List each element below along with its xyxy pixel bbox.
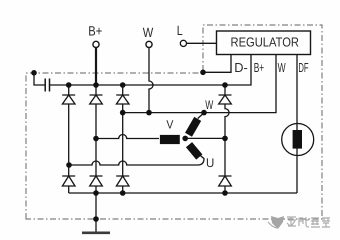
node bus C1 xyxy=(66,82,72,88)
node ground bus neutral xyxy=(222,190,228,196)
node bus C2 xyxy=(93,82,99,88)
node W line C3 xyxy=(120,110,126,116)
node neutral line xyxy=(222,136,228,142)
alternator case dashed boundary xyxy=(26,25,322,219)
wire neutral point to diode column xyxy=(185,137,225,139)
wire B+ pin to bus xyxy=(50,55,252,86)
wire capacitor to case xyxy=(34,73,45,85)
watermark logo xyxy=(268,216,284,229)
terminal L xyxy=(180,40,186,46)
svg-text:DF: DF xyxy=(298,60,308,75)
wire B+ terminal to bus xyxy=(95,48,97,85)
diode D7 neutral top xyxy=(219,85,232,104)
node star center xyxy=(182,136,188,142)
wire W terminal down with hop over B+ bus xyxy=(149,48,153,113)
wire L to D- xyxy=(187,42,217,44)
svg-text:U: U xyxy=(206,156,214,170)
svg-text:D-: D- xyxy=(234,60,248,75)
diode D5 bottom xyxy=(90,176,103,193)
node V line C2 xyxy=(93,136,99,142)
wire V line with hop xyxy=(96,135,159,139)
wire U line with hops and hook to U winding xyxy=(69,155,204,165)
wire W bar to node xyxy=(198,113,204,118)
stator winding U bar xyxy=(189,145,199,157)
diode D2 top xyxy=(90,85,103,176)
svg-text:W: W xyxy=(205,98,213,112)
wire DF pin through rotor xyxy=(296,55,298,194)
svg-text:B+: B+ xyxy=(88,23,102,38)
node bus C3 xyxy=(120,82,126,88)
node ground bus C3 xyxy=(120,190,126,196)
rotor winding rect xyxy=(293,130,302,149)
diode D6 bottom xyxy=(116,176,129,193)
node bus neutral xyxy=(222,82,228,88)
svg-text:L: L xyxy=(177,23,183,38)
diode D1 top xyxy=(62,85,75,176)
svg-text:B+: B+ xyxy=(254,60,265,75)
ground stem xyxy=(95,193,97,233)
node case ground xyxy=(93,216,99,222)
diode D8 neutral bottom xyxy=(219,138,232,193)
regulator box U1 xyxy=(217,31,311,55)
svg-text:V: V xyxy=(166,117,173,131)
terminal B+ xyxy=(93,41,99,47)
wire D- pin xyxy=(203,55,231,73)
bottom ground bus xyxy=(69,192,297,194)
wire neutral column hop over W line xyxy=(225,104,229,138)
diode D4 bottom xyxy=(62,176,75,193)
wire W pin xyxy=(123,55,276,113)
node W winding xyxy=(201,110,207,116)
terminal W xyxy=(146,41,152,47)
node L D- xyxy=(200,70,206,76)
node ground bus C2 xyxy=(93,190,99,196)
ground bar xyxy=(82,232,110,235)
svg-text:W: W xyxy=(278,60,286,75)
diode D3 top xyxy=(116,85,129,176)
svg-text:REGULATOR: REGULATOR xyxy=(231,35,300,50)
node case tap xyxy=(31,70,37,76)
rotor field winding circle xyxy=(282,124,314,156)
node W line terminal xyxy=(146,110,152,116)
capacitor C1 xyxy=(45,79,49,92)
stator winding V bar xyxy=(160,135,180,144)
stator winding W bar xyxy=(189,119,198,135)
node U line C1 xyxy=(66,162,72,168)
watermark text xyxy=(287,217,330,227)
svg-text:W: W xyxy=(143,25,154,40)
